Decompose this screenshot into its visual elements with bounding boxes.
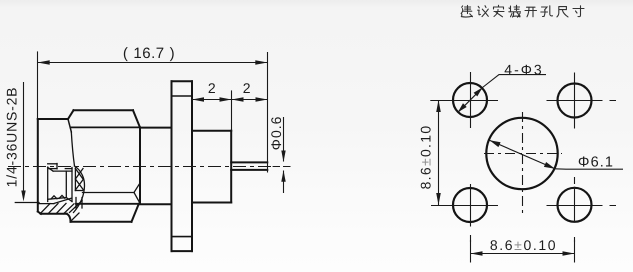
pin centerline dashes beyond tip [273,166,291,168]
bore cone lower [134,193,140,204]
center pin bottom edge [231,169,267,171]
nut cut bottom edge [41,213,67,215]
hole circle bottom-left [453,188,487,222]
dim 8.6 vertical line [438,100,440,205]
arrowhead 8.6h right [563,251,575,256]
cap-to-hex chamfer top [68,110,74,119]
char chi 尺 [557,7,568,17]
lip lower box [76,198,82,209]
hex lower facet line [76,203,140,205]
dim 2 line [192,99,268,101]
arrowhead 16.7 right [255,60,267,65]
front pin tip face [56,164,58,169]
front pin bottom [49,168,57,170]
dim (16.7) line [38,62,268,64]
nut step curve to hex bottom [67,214,71,222]
thread pitch line outside [15,202,39,204]
rear body right face [230,131,232,203]
dim 8.6 vertical ext bottom [431,205,455,207]
crosshair bottom-right [547,177,617,242]
svg-text:8.6±0.10: 8.6±0.10 [418,125,434,190]
arrowhead 8.6v top [436,100,441,112]
pocket bottom edge [48,198,72,202]
arrowhead 2 left-span left [192,97,204,102]
nut wall hatch lines [40,203,79,221]
barrel top edge [140,127,172,129]
diameter line big circle [490,140,556,169]
barrel bottom edge [140,203,172,205]
center circle centerline horizontal [484,153,562,155]
crosshair bottom-left [442,184,498,242]
bore cone upper [134,183,140,193]
pocket top edge [53,170,72,172]
dim (16.7) extension right / pin tip line [267,52,269,173]
hex bottom edge [71,221,132,223]
hole circle bottom-right [558,188,592,222]
sectioned lip arc [74,166,85,213]
pocket right wall [71,168,73,202]
arrowhead 8.6h left [471,251,483,256]
hex top edge [74,109,134,111]
svg-text:Φ6.1: Φ6.1 [578,155,614,171]
char cun 寸 [573,6,584,17]
pocket top chamfer [48,167,53,171]
arrowhead thread leader down [21,191,25,202]
char kai 开 [525,7,537,17]
flange upper step line [172,95,193,97]
svg-text:4-Φ3: 4-Φ3 [504,62,543,78]
arrowhead 2 right-span right [256,97,268,102]
phi0.6 arrow line lower [283,171,285,194]
cap right edge slant [68,119,71,132]
nut wall hatch top [38,203,54,205]
leader phi6.1 [555,168,623,170]
arrowhead 8.6v bottom [436,193,441,205]
ledge above pocket [65,168,72,170]
thread bore line [83,192,135,194]
dim 2 middle extension [231,90,233,130]
dim 8.6 vertical ext top [430,100,455,102]
hex top-right chamfer [133,110,140,127]
rear body top edge [192,130,231,132]
char yi 议 [478,6,489,17]
title: hand-drawn CJK 建议安装开孔尺寸 [461,5,584,17]
char an 安 [494,5,505,16]
arrowhead small circle NE [474,88,483,97]
nut cap bottom chamfer [38,212,41,214]
svg-text:2: 2 [243,80,251,96]
arrowhead phi0.6 down [281,151,285,163]
bore taper to pocket [54,198,71,203]
arrowhead phi0.6 up [281,170,285,182]
arrowhead 2 right-span left [232,97,244,102]
dim 8.6 horizontal ext left [470,240,472,263]
arrowhead small circle SW [458,103,467,112]
flange left edge [171,81,173,251]
sectioned lip bottom [75,190,82,192]
pocket inner wall [65,171,67,197]
svg-text:2: 2 [208,80,216,96]
thread chevrons [51,195,65,199]
sectioned lip left edge [74,168,76,191]
arrowhead big circle SE [544,162,555,169]
dim 8.6 horizontal ext right [574,240,576,263]
char kong 孔 [541,6,553,17]
svg-text:Φ0.6: Φ0.6 [268,116,284,151]
interior section detail [15,164,140,222]
lip lower box hatch [76,201,82,207]
hole circle top-left [453,83,487,117]
svg-text:(16.7): (16.7) [123,45,175,62]
hex bottom-right chamfer [132,204,139,222]
arrowhead big circle NW [490,140,501,147]
char jian 建 [461,5,472,17]
hex left chamfer silhouette [71,132,74,166]
hex right edge [139,127,141,203]
svg-text:1/4-36UNS-2B: 1/4-36UNS-2B [4,87,20,188]
front pin top [48,163,57,165]
arrowhead 2 left-span right [220,97,232,102]
flange lower step line [172,236,193,238]
flange top edge [172,80,193,82]
pocket left wall [47,167,49,201]
arrowhead 16.7 left [38,60,50,65]
center circle phi6.1 [486,118,557,189]
nut cap top edge [38,118,68,120]
phi0.6 arrow line upper [283,117,285,162]
crosshair top-left [442,72,498,128]
diameter line small circle [459,89,482,112]
hex upper facet line [71,126,141,128]
dim (16.7) extension left [37,51,39,119]
nut front face [37,119,39,212]
flange bottom edge [172,250,193,252]
crosshair top-right [547,73,617,129]
svg-text:8.6±0.10: 8.6±0.10 [490,237,557,253]
center circle centerline vertical [522,112,524,216]
rear body bottom edge [192,202,231,204]
char zhuang 装 [509,5,521,17]
dim 8.6 horizontal line [471,253,575,255]
flange right edge [191,81,193,251]
lip cross hatch [75,169,83,191]
centerline of connector [8,166,290,168]
leader 4-phi3 [483,75,547,88]
center pin top edge [231,161,267,163]
hole circle top-right [558,84,592,118]
label leader 1/4-36UNS-2B underline [23,82,25,197]
